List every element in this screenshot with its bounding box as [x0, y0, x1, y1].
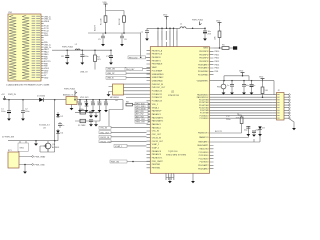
svg-text:OSC32_IN: OSC32_IN	[152, 137, 162, 139]
resistor R5 (reset series)	[222, 45, 233, 50]
svg-text:OSC32_IN: OSC32_IN	[100, 137, 110, 139]
svg-text:8MHz: 8MHz	[79, 109, 84, 111]
net label USB_DP	[106, 72, 150, 75]
switch SW1	[18, 143, 28, 151]
svg-text:PC2/ADC12: PC2/ADC12	[152, 96, 162, 99]
junction	[204, 28, 206, 30]
svg-text:VDD_1: VDD_1	[152, 104, 158, 106]
svg-text:PB12: PB12	[215, 58, 220, 60]
wire analog filter loop	[224, 76, 249, 81]
svg-text:PA5/DAC2: PA5/DAC2	[152, 126, 161, 129]
net label VCAP1	[114, 144, 147, 148]
junctions	[166, 28, 168, 30]
connector J2 (SWD header)	[273, 90, 291, 120]
svg-text:PA13/SWDIO: PA13/SWDIO	[197, 93, 209, 96]
svg-text:BOOT1: BOOT1	[215, 131, 223, 133]
svg-text:PE3/SYS_B: PE3/SYS_B	[152, 54, 163, 56]
svg-text:USBDM/PA11: USBDM/PA11	[152, 73, 164, 76]
svg-text:OSC32_OUT: OSC32_OUT	[152, 141, 164, 143]
svg-text:100n: 100n	[84, 56, 88, 58]
resistor R7 10K	[236, 115, 244, 124]
capacitor C1 100u	[1, 100, 11, 119]
MCU U2 STM32F745	[150, 47, 209, 174]
resistor R8	[126, 101, 150, 106]
junction	[66, 49, 68, 51]
svg-text:USB_DM: USB_DM	[107, 69, 115, 71]
wire U3 branch	[30, 100, 58, 141]
svg-text:PB2/BOOT1: PB2/BOOT1	[198, 133, 209, 135]
svg-text:PWR_FLAG: PWR_FLAG	[64, 88, 75, 91]
svg-text:PB14: PB14	[215, 64, 220, 66]
ground (U1 tab)	[70, 108, 74, 110]
svg-text:OSC_IN: OSC_IN	[100, 128, 108, 130]
wire battery gnd	[24, 165, 26, 172]
svg-text:PD2/SDIO: PD2/SDIO	[200, 162, 209, 164]
capacitor C9 100n	[80, 50, 88, 62]
ground	[101, 44, 105, 46]
svg-text:VCAP_1: VCAP_1	[115, 145, 122, 148]
PWR_FLAG (3V3)	[64, 88, 77, 101]
svg-text:PA15/JTDI: PA15/JTDI	[199, 148, 208, 151]
net label USB_ID	[106, 76, 150, 79]
svg-text:VDD 3V3: VDD 3V3	[80, 97, 89, 99]
svg-text:PDR_ON: PDR_ON	[111, 162, 120, 164]
capacitor C22	[89, 111, 96, 115]
resistor R2 10K	[119, 16, 125, 25]
svg-text:BOOT: BOOT	[95, 25, 97, 31]
wire VDD bus	[147, 20, 205, 43]
svg-text:32.768K: 32.768K	[78, 125, 86, 127]
svg-text:PD11/FSMC: PD11/FSMC	[198, 74, 209, 76]
svg-text:PA9/UART1: PA9/UART1	[198, 141, 208, 144]
capacitor C11 10u/25V	[203, 28, 212, 38]
capacitor C10 100u	[106, 49, 113, 62]
svg-text:PWR_VBAT: PWR_VBAT	[35, 156, 47, 159]
svg-text:PD10/FSMC: PD10/FSMC	[198, 71, 209, 73]
svg-text:VCAP_2: VCAP_2	[152, 146, 159, 149]
MCU right pin names	[197, 48, 210, 171]
net label OSC32_IN	[99, 135, 147, 139]
ground	[250, 93, 254, 95]
ground (VSSA)	[191, 181, 195, 183]
capacitor C6	[120, 33, 127, 44]
inductor L2 600R	[75, 49, 80, 50]
svg-text:1u: 1u	[227, 85, 229, 87]
node 5V switch labels	[2, 137, 14, 139]
svg-text:TIM2_CH2: TIM2_CH2	[136, 122, 145, 124]
svg-text:PC3/ADC13: PC3/ADC13	[152, 100, 162, 103]
svg-text:VBAT: VBAT	[152, 66, 158, 69]
wire VDDA rail	[214, 81, 275, 95]
svg-text:VDDA/VREF+: VDDA/VREF+	[197, 79, 210, 82]
ground	[203, 39, 207, 41]
svg-text:PE6/TRACE: PE6/TRACE	[152, 63, 163, 66]
wire switch rail	[8, 141, 48, 144]
svg-text:PD6/UART2: PD6/UART2	[198, 167, 208, 170]
capacitor C13	[242, 81, 249, 93]
ground	[120, 44, 124, 46]
wire VBUS rail	[52, 49, 111, 51]
svg-text:PA1/ADC1: PA1/ADC1	[152, 113, 161, 116]
svg-text:VSSA_1: VSSA_1	[152, 106, 159, 109]
svg-text:PC13/TAMP: PC13/TAMP	[152, 69, 163, 72]
svg-text:GND: GND	[44, 35, 49, 37]
wire lower branch	[214, 126, 261, 142]
net label OSC_OUT	[99, 131, 147, 135]
svg-text:TQFP-100: TQFP-100	[168, 151, 178, 153]
capacitor C18	[78, 103, 82, 110]
svg-text:R1 10K: R1 10K	[101, 18, 103, 25]
diode D5 ESD	[85, 103, 89, 110]
svg-text:R2 10K: R2 10K	[119, 18, 121, 25]
wire 3V3 rail	[80, 100, 123, 110]
svg-text:PC9/SDIO: PC9/SDIO	[200, 118, 209, 120]
svg-text:PB11: PB11	[215, 54, 219, 56]
wire	[166, 178, 174, 182]
ground (J2)	[289, 118, 296, 130]
cap labels	[226, 116, 231, 121]
svg-text:PC0/ADC10: PC0/ADC10	[152, 90, 162, 93]
diode D1 SS34	[37, 96, 47, 102]
ground	[104, 110, 108, 112]
svg-text:PA14/SWCLK: PA14/SWCLK	[197, 96, 209, 99]
svg-text:PE4_KEY: PE4_KEY	[126, 69, 135, 71]
wire BOOT1 branch	[214, 124, 242, 133]
svg-text:PA8/MCO1: PA8/MCO1	[199, 136, 208, 139]
net label OSC_IN	[99, 126, 147, 130]
svg-text:10n: 10n	[246, 85, 249, 87]
svg-text:OSC_IN: OSC_IN	[152, 131, 160, 133]
svg-text:ESD: ESD	[84, 101, 89, 103]
capacitor C19	[91, 103, 95, 110]
pad SW reset	[233, 46, 237, 49]
svg-text:D1 SS34: D1 SS34	[37, 96, 46, 98]
ground	[252, 135, 256, 137]
regulator U3 XC6204 label	[39, 125, 51, 130]
svg-text:MPU6050: MPU6050	[110, 97, 120, 99]
svg-text:USB_ID: USB_ID	[107, 78, 114, 80]
wire	[106, 7, 125, 16]
svg-text:AO3401: AO3401	[52, 146, 60, 149]
svg-text:PC1/ADC11: PC1/ADC11	[152, 93, 162, 96]
svg-text:PB10: PB10	[215, 51, 220, 53]
svg-text:PA0/WKUP: PA0/WKUP	[152, 110, 162, 113]
svg-text:PWR_FLAG: PWR_FLAG	[62, 45, 73, 48]
MCU bottom rotated pin labels	[166, 175, 175, 181]
svg-text:GND: GND	[44, 77, 49, 79]
MCU bottom pin stubs	[166, 173, 193, 177]
wire bus MCU to J2	[214, 95, 273, 119]
svg-text:PWR_GND: PWR_GND	[35, 165, 46, 167]
wire osc links	[100, 110, 123, 128]
transistor Q1	[44, 143, 61, 152]
svg-text:PB0/ADC8: PB0/ADC8	[152, 150, 161, 153]
cap value labels	[77, 101, 108, 103]
svg-text:100n: 100n	[104, 101, 108, 103]
svg-text:USB_DP: USB_DP	[107, 73, 115, 75]
wire	[40, 141, 55, 152]
svg-text:PA4/DAC1: PA4/DAC1	[152, 123, 161, 126]
diode D3 (LED)	[258, 127, 265, 135]
svg-text:PE5/KEY1: PE5/KEY1	[152, 60, 161, 62]
svg-text:PE9/TIM1: PE9/TIM1	[152, 168, 160, 170]
svg-text:VBUS: VBUS	[44, 21, 50, 23]
svg-text:PE2/SYS_A: PE2/SYS_A	[152, 49, 163, 52]
svg-text:PB13/SPI2: PB13/SPI2	[199, 54, 208, 56]
net label OSC32_OUT	[99, 140, 147, 144]
wire	[192, 178, 194, 182]
svg-text:PE3_LED: PE3_LED	[129, 57, 138, 59]
svg-text:PD9/UART3: PD9/UART3	[198, 67, 208, 70]
node +5V input labels	[1, 94, 16, 96]
capacitor C12	[227, 81, 234, 93]
power flag arrow	[3, 96, 6, 100]
capacitor C5	[98, 33, 105, 44]
power VDD (LED pull)	[259, 77, 265, 82]
capacitor C16	[252, 130, 260, 135]
svg-text:PC12/SDIO: PC12/SDIO	[199, 158, 209, 160]
ground	[230, 93, 234, 95]
net label PDR_ON	[110, 160, 150, 164]
svg-text:PB2/BOOT1: PB2/BOOT1	[152, 158, 163, 160]
resistor R6	[261, 82, 269, 98]
junction	[123, 32, 125, 34]
svg-text:PWR_IN: PWR_IN	[8, 94, 16, 96]
capacitor C14 (polarized)	[250, 81, 256, 93]
net label PE4	[125, 68, 143, 72]
J1 pin numbers	[32, 16, 40, 78]
power VDD (analog)	[239, 71, 245, 76]
svg-text:STM32 MINI SYSTEM: STM32 MINI SYSTEM	[166, 155, 186, 157]
ground	[222, 93, 226, 95]
IC U4 MPU6050	[109, 84, 147, 102]
ground	[89, 116, 93, 118]
ground	[21, 119, 25, 121]
capacitor C15	[244, 127, 250, 135]
svg-text:100n: 100n	[97, 101, 101, 103]
ground	[80, 63, 84, 65]
svg-text:PWR_FLAG: PWR_FLAG	[192, 19, 203, 22]
capacitor C7 100n	[141, 28, 150, 38]
svg-text:VCAP_1: VCAP_1	[152, 143, 159, 146]
resistor R1 10K	[101, 16, 107, 25]
svg-text:PA2/USART2: PA2/USART2	[152, 116, 163, 119]
connector J1 (Arduino pin header)	[8, 12, 41, 81]
svg-text:5V PWR_SW: 5V PWR_SW	[2, 137, 14, 139]
svg-text:100n: 100n	[25, 111, 29, 113]
crystal Y1 8MHz	[75, 109, 100, 114]
regulator U1 AMS1117-3.3	[63, 93, 80, 108]
ground	[98, 110, 102, 112]
inductor L1	[180, 24, 186, 29]
diode D4	[56, 131, 64, 135]
power VDD (NRST pull-up)	[216, 21, 222, 26]
MCU top pin stubs	[158, 42, 177, 47]
MCU left pin stubs	[147, 51, 151, 168]
capacitor C8 4.7u	[61, 50, 69, 62]
power VDD (MCU top)	[163, 15, 169, 20]
wire R7 top	[238, 113, 242, 115]
svg-text:1.5A&6&8 ARDUINO PIN HEADER 2X: 1.5A&6&8 ARDUINO PIN HEADER 2X22P 2.54MM	[6, 84, 50, 87]
svg-text:PA10/UART1: PA10/UART1	[197, 144, 208, 147]
J1 pin stubs	[41, 17, 44, 78]
svg-text:PC11/SDIO: PC11/SDIO	[199, 155, 209, 157]
svg-text:PB13: PB13	[215, 61, 220, 63]
svg-text:100n: 100n	[226, 119, 230, 121]
crystal Y2 32.768k	[75, 119, 100, 127]
svg-text:PD5/UART2: PD5/UART2	[198, 164, 208, 167]
MCU right pin stubs	[210, 48, 214, 169]
resistor R4 1K5	[94, 49, 102, 69]
junction	[105, 32, 107, 34]
svg-text:STM32F745: STM32F745	[168, 95, 180, 97]
pin labels (rotated)	[157, 31, 177, 40]
svg-text:AMS1117-3.3: AMS1117-3.3	[63, 93, 76, 96]
svg-text:PH1/OSC_OUT: PH1/OSC_OUT	[152, 87, 166, 89]
net label PE3	[128, 56, 150, 60]
wire 5V rail	[3, 99, 66, 101]
diode D2	[56, 114, 64, 118]
ground	[109, 63, 113, 65]
ground	[65, 63, 69, 65]
ground	[34, 141, 38, 146]
svg-text:OSC_OUT: OSC_OUT	[152, 134, 162, 136]
svg-text:PD8: PD8	[215, 71, 219, 73]
ground	[78, 110, 82, 112]
ground (battery)	[23, 172, 27, 174]
ground (U4)	[107, 94, 111, 96]
svg-text:1u: 1u	[253, 85, 255, 87]
ground	[242, 93, 246, 95]
svg-text:PA3/USART2: PA3/USART2	[152, 120, 163, 123]
capacitor C23	[89, 120, 96, 124]
ground	[7, 119, 11, 121]
capacitor C2 100n	[21, 100, 29, 119]
power VDD (pull-up pair)	[103, 2, 108, 7]
net label USB_DM	[106, 67, 150, 70]
svg-text:PDR_ON/BT: PDR_ON/BT	[152, 161, 164, 163]
ferrite bead FB1	[217, 81, 226, 93]
ground	[89, 124, 93, 126]
junction	[82, 49, 84, 51]
wire NRST	[214, 47, 223, 49]
ground	[246, 134, 250, 136]
svg-text:PB1/ADC9: PB1/ADC9	[152, 153, 161, 156]
resistor R3 10K	[215, 26, 221, 49]
capacitor C20	[98, 103, 102, 110]
svg-text:PH0/OSC_IN: PH0/OSC_IN	[152, 84, 164, 86]
svg-text:USBID/PA10: USBID/PA10	[152, 79, 163, 82]
capacitor C3 1u	[58, 122, 64, 128]
ground	[145, 39, 149, 41]
svg-text:OSC32_OUT: OSC32_OUT	[100, 141, 112, 143]
svg-text:OSC_OUT: OSC_OUT	[100, 132, 110, 134]
svg-text:PB12/SPI2: PB12/SPI2	[199, 51, 208, 53]
svg-text:100n: 100n	[91, 101, 95, 103]
ground (MCU VSS)	[168, 181, 172, 183]
svg-text:USB_5V: USB_5V	[80, 72, 88, 74]
svg-text:PE8/TIM1: PE8/TIM1	[152, 164, 160, 166]
svg-text:PB15: PB15	[215, 68, 220, 70]
svg-text:XC6204-3.3: XC6204-3.3	[39, 125, 51, 127]
svg-text:PB15/SPI2: PB15/SPI2	[199, 61, 208, 63]
ground	[258, 134, 262, 136]
battery BT1	[8, 150, 46, 168]
svg-text:PD8/UART3: PD8/UART3	[198, 63, 208, 66]
capacitor C21	[104, 103, 108, 110]
wire	[88, 22, 141, 57]
svg-text:1u: 1u	[62, 125, 64, 127]
svg-text:100u: 100u	[1, 111, 5, 113]
ground	[91, 110, 95, 112]
svg-text:PE4/KEY0: PE4/KEY0	[152, 57, 161, 59]
svg-text:PC10/SDIO: PC10/SDIO	[199, 152, 209, 154]
MCU left pin names	[152, 49, 166, 169]
ground	[85, 110, 89, 112]
PWR_FLAG (VDD bus)	[192, 19, 203, 26]
svg-text:100n: 100n	[77, 101, 81, 103]
svg-text:PB14/SPI2: PB14/SPI2	[199, 58, 208, 60]
MCU right upper stub labels	[215, 51, 220, 73]
svg-text:USBDP/PA12: USBDP/PA12	[152, 76, 164, 79]
svg-text:NRST: NRST	[203, 48, 209, 50]
net labels (left mid stack)	[135, 102, 150, 123]
J1 net stub labels	[44, 16, 52, 79]
